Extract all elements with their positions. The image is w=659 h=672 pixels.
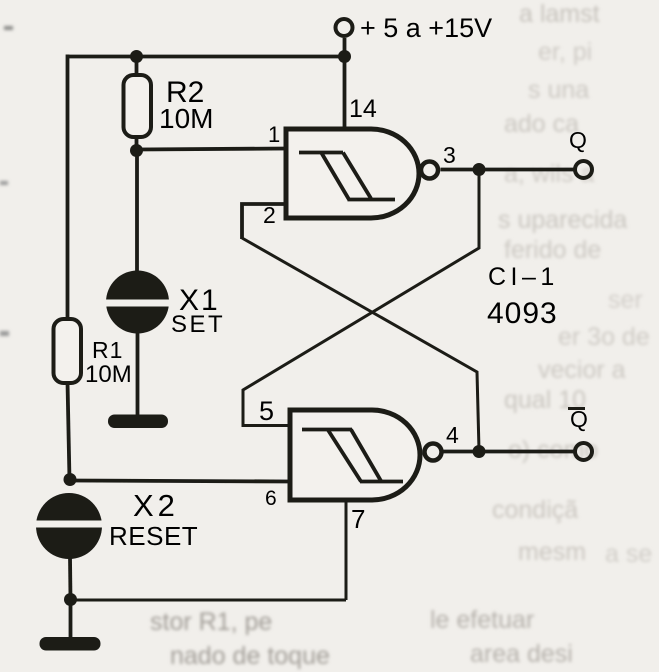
svg-text:3: 3 — [443, 142, 456, 168]
ground X2 — [40, 637, 101, 651]
wire V+ terminal to pin 14 — [343, 38, 347, 129]
svg-text:s una: s una — [528, 76, 589, 104]
svg-text:le efetuar: le efetuar — [430, 606, 534, 634]
output bubble CI-1a pin 3 — [421, 162, 438, 179]
wire cross pin2 to Q-bar node — [242, 238, 479, 450]
touch sensor X1 — [98, 271, 178, 334]
resistor R2 — [124, 75, 152, 137]
svg-text:stor R1, pe: stor R1, pe — [150, 608, 272, 636]
terminal Q-bar — [575, 443, 592, 460]
output bubble CI-1b pin 4 — [425, 444, 442, 461]
wire X2 bottom — [68, 557, 72, 600]
svg-text:4093: 4093 — [487, 297, 558, 330]
wire R2 bottom stub — [135, 135, 139, 150]
svg-text:CI–1: CI–1 — [488, 263, 559, 291]
svg-text:ado ca: ado ca — [504, 110, 579, 138]
svg-text:5: 5 — [259, 396, 274, 426]
svg-text:+ 5 a +15V: + 5 a +15V — [360, 13, 492, 43]
svg-text:nado de toque: nado de toque — [170, 642, 330, 670]
label Q-bar — [568, 406, 588, 432]
schmitt symbol CI-1b — [302, 430, 403, 482]
wire pin 7 horizontal — [71, 599, 347, 602]
svg-text:X2: X2 — [133, 488, 179, 523]
NAND gate CI-1b body — [290, 410, 420, 500]
svg-text:a se: a se — [605, 540, 652, 568]
wire cross Q node to pin 5 — [243, 170, 479, 426]
junction node Q-bar — [473, 445, 486, 458]
svg-text:er, pi: er, pi — [538, 38, 592, 66]
wire pin 1 — [137, 149, 288, 150]
svg-text:ferido de: ferido de — [504, 236, 601, 264]
svg-text:4: 4 — [446, 422, 459, 448]
svg-text:a lamst: a lamst — [519, 0, 600, 28]
svg-text:10M: 10M — [159, 103, 213, 134]
touch sensor X2 — [28, 493, 112, 559]
svg-text:mesm: mesm — [518, 538, 586, 566]
wire pin 2 — [242, 204, 287, 239]
svg-text:14: 14 — [349, 95, 377, 123]
wire pin 6 — [70, 481, 291, 482]
wire R2 top stub — [135, 57, 139, 78]
resistor R1 — [54, 319, 82, 383]
wire top rail — [67, 55, 345, 59]
wire R1 to X2 — [68, 382, 70, 480]
svg-text:a, wils a: a, wils a — [504, 160, 594, 188]
schmitt symbol CI-1a — [299, 153, 395, 200]
svg-text:SET: SET — [171, 311, 225, 338]
svg-text:6: 6 — [265, 487, 277, 510]
junction R2 bottom / pin 1 node — [130, 144, 143, 157]
svg-text:1: 1 — [268, 122, 280, 147]
svg-text:condiçã: condiçã — [492, 496, 578, 524]
svg-text:10M: 10M — [85, 361, 132, 388]
junction node Q — [473, 163, 486, 176]
svg-text:R1: R1 — [92, 337, 123, 363]
svg-text:s uparecida: s uparecida — [498, 206, 627, 234]
terminal Q — [575, 161, 592, 178]
svg-text:er 3o de: er 3o de — [558, 323, 650, 351]
svg-text:ser: ser — [608, 286, 643, 314]
wire X1 top — [135, 151, 139, 274]
wire X1 to ground — [136, 332, 140, 418]
wire left vertical (top rail to R1) — [66, 55, 70, 321]
svg-text:RESET: RESET — [109, 521, 198, 551]
svg-text:7: 7 — [351, 504, 365, 534]
NAND gate CI-1a body — [286, 129, 419, 218]
junction V+ rail — [338, 50, 351, 63]
junction R2 top — [130, 50, 143, 63]
svg-text:Q: Q — [569, 127, 587, 153]
power terminal +5 a +15V — [336, 19, 353, 36]
wire pin 7 vertical — [345, 499, 348, 600]
wire pin 3 output — [441, 168, 575, 172]
junction X2 bottom / pin 7 node — [64, 593, 77, 606]
ground X1 — [108, 415, 168, 429]
junction X2 top / pin 6 node — [64, 473, 77, 486]
svg-text:area desi: area desi — [470, 640, 573, 668]
wire pin 4 output — [444, 450, 575, 454]
svg-text:vecior a: vecior a — [538, 356, 626, 384]
wire X2 ground stub — [69, 600, 73, 640]
